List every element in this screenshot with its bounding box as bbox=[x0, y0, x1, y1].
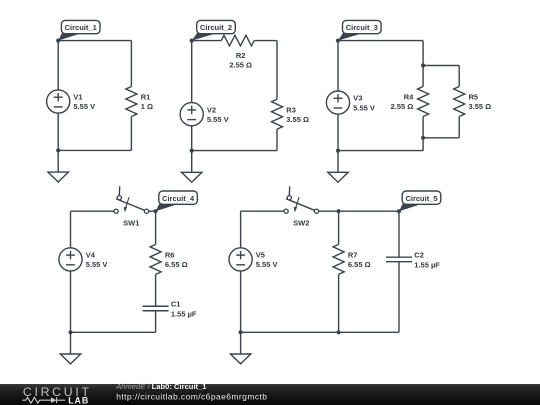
resistor R3 bbox=[272, 99, 310, 129]
wire: circuit2 right upper bbox=[276, 41, 278, 100]
wire: circuit3 R4 upper bbox=[422, 66, 424, 87]
voltage source V4 bbox=[59, 248, 107, 271]
wire: circuit4 top right bbox=[149, 210, 156, 212]
svg-text:C2: C2 bbox=[414, 251, 424, 260]
wire: circuit3 bottom bbox=[338, 150, 423, 152]
voltage source V3 bbox=[326, 91, 374, 114]
junction: circuit3 parallel bottom node bbox=[421, 136, 425, 140]
wire: circuit4 right middle bbox=[155, 274, 157, 306]
capacitor C2 bbox=[386, 251, 440, 270]
svg-text:V2: V2 bbox=[207, 105, 216, 114]
wire: circuit1 right lower bbox=[130, 117, 132, 151]
wire: circuit2 top right bbox=[254, 40, 277, 42]
svg-text:SW1: SW1 bbox=[123, 218, 139, 227]
junction: circuit5 R7 bottom node bbox=[337, 330, 341, 334]
wire: circuit1 top bbox=[58, 40, 131, 42]
svg-text:5.55 V: 5.55 V bbox=[207, 115, 229, 124]
ground: circuit2 bbox=[182, 151, 202, 183]
svg-text:C1: C1 bbox=[171, 300, 181, 309]
voltage source V5 bbox=[229, 248, 277, 271]
svg-text:R1: R1 bbox=[141, 93, 151, 102]
wire: circuit1 left lower bbox=[57, 113, 59, 150]
resistor R5 bbox=[454, 87, 492, 117]
switch SW1 bbox=[114, 186, 149, 227]
wire: circuit4 right lower bbox=[155, 311, 157, 333]
wire: circuit4 bottom bbox=[71, 331, 156, 333]
voltage source V1 bbox=[47, 90, 95, 113]
svg-text:Circuit_5: Circuit_5 bbox=[405, 194, 437, 203]
svg-text:5.55 V: 5.55 V bbox=[86, 260, 108, 269]
wire: circuit5 bottom bbox=[241, 331, 399, 333]
ground: circuit1 bbox=[48, 150, 68, 182]
wire: circuit4 right upper bbox=[155, 211, 157, 244]
wire: circuit5 top right bbox=[319, 210, 399, 212]
voltage source V2 bbox=[180, 103, 228, 126]
wire: circuit3 R4 lower bbox=[422, 117, 424, 138]
svg-text:5.55 V: 5.55 V bbox=[353, 103, 375, 112]
ground: circuit5 bbox=[230, 332, 250, 364]
junction: circuit1 ground node bbox=[56, 148, 60, 152]
node flag Circuit_2 bbox=[190, 20, 236, 42]
svg-text:1.55 µF: 1.55 µF bbox=[171, 310, 197, 319]
wire: circuit3 parallel bottom bbox=[423, 137, 459, 139]
svg-text:Circuit_1: Circuit_1 bbox=[65, 23, 97, 32]
svg-text:6.55 Ω: 6.55 Ω bbox=[348, 260, 371, 269]
junction: circuit5 ground node bbox=[239, 330, 243, 334]
wire: circuit3 left upper bbox=[337, 41, 339, 91]
svg-text:3.55 Ω: 3.55 Ω bbox=[469, 102, 492, 111]
wire: circuit2 right lower bbox=[276, 129, 278, 150]
svg-text:6.55 Ω: 6.55 Ω bbox=[165, 260, 188, 269]
junction: circuit4 ground node bbox=[68, 330, 72, 334]
wire: circuit1 bottom bbox=[58, 149, 131, 151]
junction: circuit3 parallel top node bbox=[421, 63, 425, 67]
wire: circuit3 mid drop bbox=[422, 41, 424, 66]
wire: circuit2 left lower bbox=[191, 126, 193, 151]
svg-text:R5: R5 bbox=[469, 93, 479, 102]
svg-text:1 Ω: 1 Ω bbox=[141, 102, 153, 111]
wire: circuit5 R7 lower bbox=[338, 274, 340, 332]
wire: circuit5 right upper bbox=[398, 211, 400, 257]
svg-text:Circuit_4: Circuit_4 bbox=[162, 194, 195, 203]
node flag Circuit_5 bbox=[397, 191, 441, 213]
CircuitLab logo: diode triangle bbox=[51, 397, 57, 403]
junction: circuit2 ground node bbox=[190, 149, 194, 153]
wire: circuit5 top left bbox=[241, 210, 284, 212]
svg-text:5.55 V: 5.55 V bbox=[73, 102, 95, 111]
switch SW2 bbox=[284, 186, 319, 227]
wire: circuit3 left lower bbox=[337, 114, 339, 150]
wire: circuit5 left upper bbox=[240, 211, 242, 248]
node flag Circuit_1 bbox=[56, 20, 100, 42]
wire: circuit5 left lower bbox=[240, 271, 242, 332]
ground: circuit3 bbox=[328, 151, 348, 183]
wire: circuit3 R5 lower bbox=[458, 117, 460, 138]
wire: circuit4 top left bbox=[71, 210, 115, 212]
resistor R6 bbox=[150, 244, 188, 274]
svg-text:SW2: SW2 bbox=[293, 218, 309, 227]
wire: circuit5 R7 upper bbox=[338, 211, 340, 244]
svg-text:Circuit_2: Circuit_2 bbox=[200, 23, 232, 32]
wire: circuit2 top left bbox=[192, 40, 222, 42]
wire: circuit2 bottom bbox=[192, 150, 277, 152]
wire: circuit4 left upper bbox=[70, 211, 72, 248]
wire: circuit3 parallel top bbox=[423, 65, 459, 67]
svg-text:R7: R7 bbox=[348, 251, 358, 260]
svg-text:R4: R4 bbox=[404, 93, 414, 102]
svg-text:1.55 µF: 1.55 µF bbox=[414, 261, 440, 270]
node flag Circuit_4 bbox=[154, 191, 198, 213]
svg-text:http://circuitlab.com/c6pae6mr: http://circuitlab.com/c6pae6mrgmctb bbox=[116, 392, 267, 402]
wire: circuit4 left lower bbox=[70, 271, 72, 332]
CircuitLab logo: resistor-diode underline bbox=[22, 397, 65, 403]
svg-text:V3: V3 bbox=[353, 94, 362, 103]
wire: circuit1 left upper bbox=[57, 41, 59, 90]
svg-text:AhmedE / Lab0: Circuit_1: AhmedE / Lab0: Circuit_1 bbox=[115, 382, 207, 391]
wire: circuit3 top bbox=[338, 40, 423, 42]
wire: circuit3 R5 upper bbox=[458, 66, 460, 87]
svg-text:3.55 Ω: 3.55 Ω bbox=[286, 115, 309, 124]
resistor R4 bbox=[391, 87, 429, 117]
junction: circuit3 ground node bbox=[336, 149, 340, 153]
node flag Circuit_3 bbox=[336, 20, 381, 42]
junction: circuit5 R7 top node bbox=[337, 209, 341, 213]
wire: circuit2 left upper bbox=[191, 41, 193, 103]
ground: circuit4 bbox=[60, 332, 80, 364]
svg-text:V1: V1 bbox=[73, 93, 82, 102]
svg-text:2.55 Ω: 2.55 Ω bbox=[229, 61, 252, 70]
svg-text:R2: R2 bbox=[236, 51, 246, 60]
wire: circuit1 right upper bbox=[130, 41, 132, 87]
svg-text:Circuit_3: Circuit_3 bbox=[346, 23, 378, 32]
capacitor C1 bbox=[143, 300, 197, 319]
resistor R1 bbox=[126, 87, 153, 117]
svg-text:2.55 Ω: 2.55 Ω bbox=[391, 102, 414, 111]
resistor R2 bbox=[221, 35, 254, 69]
svg-text:R3: R3 bbox=[286, 105, 296, 114]
svg-text:R6: R6 bbox=[165, 251, 175, 260]
svg-text:V5: V5 bbox=[256, 251, 265, 260]
svg-text:5.55 V: 5.55 V bbox=[256, 260, 278, 269]
svg-text:LAB: LAB bbox=[68, 396, 89, 405]
svg-text:V4: V4 bbox=[86, 251, 96, 260]
wire: circuit3 mid lower bbox=[422, 138, 424, 151]
resistor R7 bbox=[333, 244, 371, 274]
wire: circuit5 right lower bbox=[398, 262, 400, 333]
